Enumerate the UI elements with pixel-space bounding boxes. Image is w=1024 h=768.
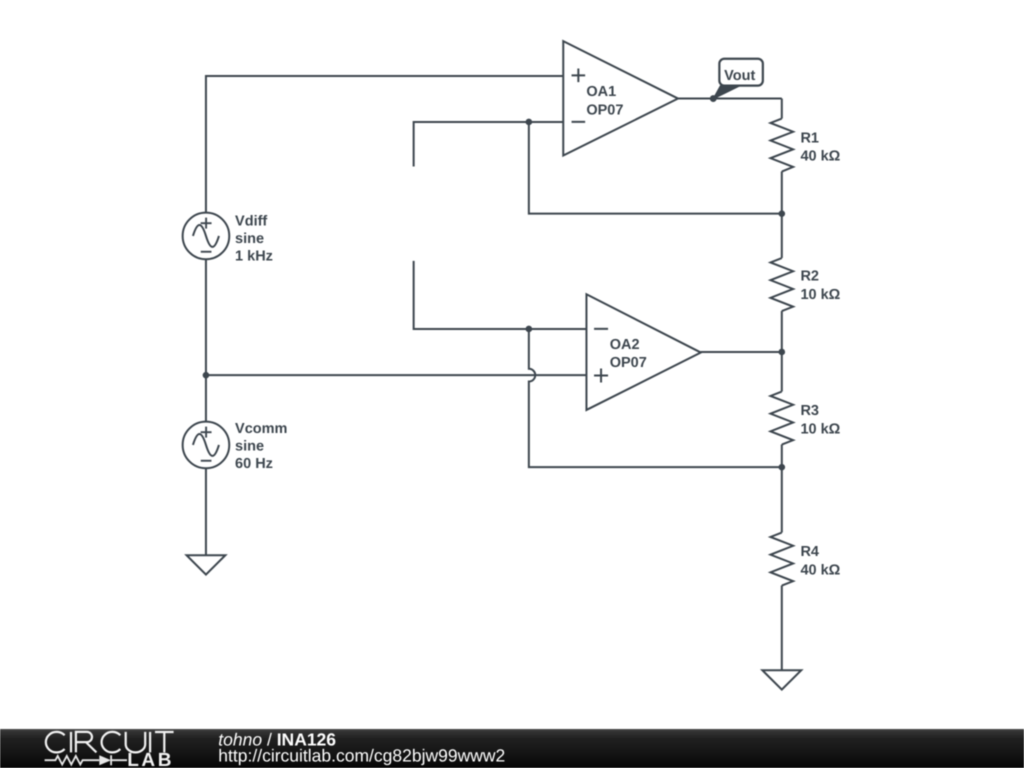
op-amp OA2 triangle	[586, 294, 700, 410]
wire Vcomm to ground	[205, 468, 207, 555]
svg-text:60 Hz: 60 Hz	[235, 456, 273, 472]
svg-text:OP07: OP07	[586, 102, 623, 118]
logo diode triangle	[99, 755, 111, 765]
logo CIRCUIT letters	[46, 732, 174, 753]
wire feedback OA2 to R3-R4 node (with hop)	[529, 329, 782, 467]
node dot common	[203, 372, 210, 379]
source Vcomm sine	[193, 434, 219, 456]
wire feedback OA1 to R1-R2 node	[529, 122, 782, 214]
node dot OA2 out R2-R3	[779, 349, 786, 356]
svg-text:LAB: LAB	[127, 750, 174, 768]
svg-text:OP07: OP07	[610, 355, 647, 371]
wire stub to OA2 inverting input	[414, 261, 587, 329]
resistor R2 body	[771, 258, 794, 311]
wire R4 to ground	[781, 586, 783, 671]
node dot Vout	[710, 95, 717, 102]
svg-text:Vout: Vout	[724, 68, 755, 84]
resistor R4 body	[771, 533, 794, 586]
svg-text:R1: R1	[800, 130, 819, 146]
wire right rail top	[781, 99, 783, 119]
svg-text:Vcomm: Vcomm	[235, 421, 287, 437]
svg-text:R4: R4	[800, 544, 819, 560]
svg-text:OA1: OA1	[586, 84, 616, 100]
source Vdiff minus	[201, 251, 212, 253]
node dot R1-R2	[779, 210, 786, 217]
wire OA1 output to right rail	[678, 98, 782, 100]
Vout callout box	[719, 59, 763, 86]
source Vdiff sine	[193, 225, 219, 247]
resistor R1 body	[771, 119, 794, 172]
Vout callout tail	[713, 86, 740, 99]
svg-text:sine: sine	[235, 439, 264, 455]
wire Vdiff to Vcomm through common node	[205, 259, 207, 421]
svg-text:R3: R3	[800, 403, 819, 419]
wire R2 to OA2 output node	[781, 311, 783, 392]
source Vcomm plus	[201, 427, 212, 438]
svg-text:Vdiff: Vdiff	[235, 213, 267, 229]
svg-text:40 kΩ: 40 kΩ	[800, 148, 840, 164]
source Vdiff circle	[183, 213, 230, 260]
svg-text:http://circuitlab.com/cg82bjw9: http://circuitlab.com/cg82bjw99www2	[218, 746, 505, 766]
svg-text:sine: sine	[235, 231, 264, 247]
wire R3 to node	[781, 445, 783, 533]
svg-text:10 kΩ: 10 kΩ	[800, 422, 840, 438]
wire OA2 output	[701, 351, 782, 353]
resistor R3 body	[771, 392, 794, 445]
op-amp OA1 plus marker	[572, 69, 586, 83]
ground right	[762, 670, 801, 689]
svg-text:OA2: OA2	[610, 337, 640, 353]
op-amp OA2 plus marker	[594, 369, 608, 383]
node dot OA1 inverting input	[526, 119, 533, 126]
wire Vdiff top to OA1 noninverting input	[206, 76, 563, 213]
source Vdiff plus	[201, 218, 212, 229]
wire R1 to node	[781, 172, 783, 258]
op-amp OA1 minus marker	[572, 121, 586, 123]
svg-text:1 kHz: 1 kHz	[235, 248, 273, 264]
schematic stroke colour	[183, 41, 802, 689]
node dot OA2 inverting input	[526, 326, 533, 333]
op-amp OA2 minus marker	[594, 328, 608, 330]
svg-text:10 kΩ: 10 kΩ	[800, 287, 840, 303]
op-amp OA1 triangle	[563, 41, 678, 155]
svg-text:R2: R2	[800, 269, 819, 285]
wire common node to OA2 noninverting input	[206, 374, 587, 376]
logo squiggle resistor-diode	[45, 755, 127, 765]
node dot R3-R4	[779, 464, 786, 471]
source Vcomm minus	[201, 460, 212, 462]
ground left	[187, 555, 226, 574]
source Vcomm circle	[183, 422, 230, 469]
svg-text:40 kΩ: 40 kΩ	[800, 563, 840, 579]
wire OA1 inverting input	[414, 122, 564, 166]
